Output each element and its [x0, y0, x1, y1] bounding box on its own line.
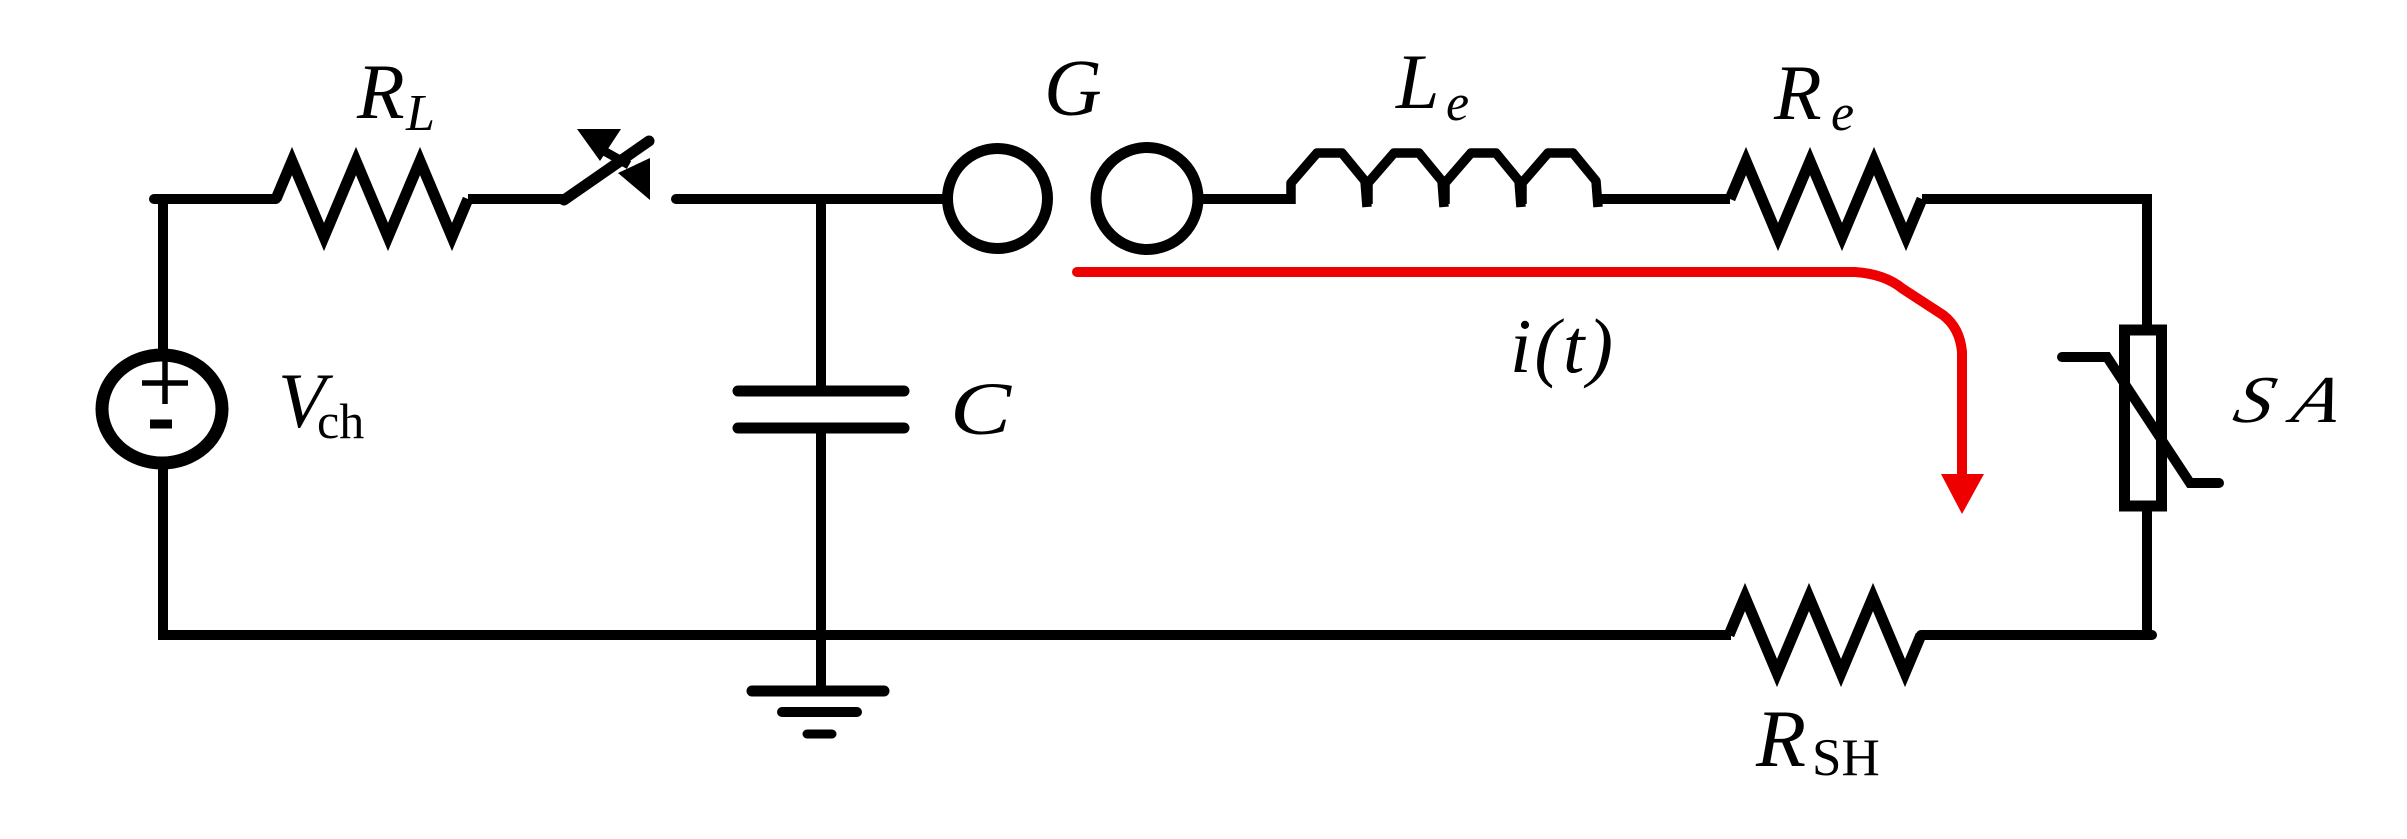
svg-text:L: L	[405, 85, 435, 142]
resistor R_SH	[1729, 597, 1921, 673]
svg-text:SA: SA	[2227, 363, 2370, 437]
wire left vertical from source to bottom corner	[158, 464, 168, 640]
switch trigger arrow stub	[604, 151, 629, 165]
bottom wire left segment	[163, 630, 1731, 640]
svg-text:R: R	[356, 48, 405, 135]
surge arrester SA body rectangle	[2125, 330, 2162, 506]
voltage source minus sign	[150, 420, 172, 429]
switch trigger arrow head 1	[577, 129, 621, 161]
red current arrowhead	[1941, 474, 1984, 514]
surge arrester SA varistor diagonal stroke	[2062, 357, 2219, 483]
wire capacitor branch lower through bottom wire to ground	[816, 433, 826, 691]
svg-text:e: e	[1446, 75, 1469, 132]
wire top-left horizontal from left corner to R_L	[154, 194, 276, 204]
svg-text:G: G	[1044, 45, 1102, 133]
red current path i(t)	[1077, 272, 1962, 476]
svg-text:R: R	[1773, 49, 1822, 136]
svg-text:L: L	[1395, 38, 1439, 125]
ground bar 1	[752, 686, 884, 697]
wire from SA down to bottom-right corner	[2142, 506, 2152, 640]
label C	[950, 368, 1012, 451]
wire from switch to spark gap, through capacitor node	[676, 194, 946, 204]
svg-text:e: e	[1831, 85, 1854, 142]
spark gap G right electrode circle	[1096, 148, 1198, 250]
wire between R_L and switch	[468, 194, 566, 204]
wire from R_e to top-right corner and down to SA	[1922, 199, 2147, 330]
bottom wire right segment	[1921, 630, 2152, 640]
wire capacitor branch upper	[816, 194, 826, 386]
svg-text:C: C	[950, 368, 1012, 451]
switch trigger arrow head 2	[618, 158, 650, 200]
wire left vertical from top corner to source	[158, 194, 168, 353]
resistor R_e	[1730, 161, 1922, 237]
capacitor C top plate	[738, 386, 904, 397]
voltage source V_ch circle	[102, 355, 222, 463]
switch blade (trigger switch)	[564, 141, 649, 200]
svg-text:SH: SH	[1812, 729, 1880, 787]
svg-text:R: R	[1755, 693, 1806, 784]
voltage source plus sign	[142, 359, 188, 404]
label SA	[2227, 363, 2370, 437]
inductor L_e	[1291, 153, 1598, 207]
capacitor C bottom plate	[738, 423, 904, 434]
resistor R_L	[276, 161, 468, 237]
svg-text:ch: ch	[317, 393, 364, 449]
ground bar 2	[782, 707, 857, 717]
svg-text:i(t): i(t)	[1510, 303, 1616, 389]
spark gap G left electrode circle	[948, 149, 1048, 249]
wire from inductor to R_e	[1598, 194, 1730, 204]
wire from spark gap to inductor	[1198, 194, 1294, 204]
ground bar 3	[807, 730, 832, 739]
